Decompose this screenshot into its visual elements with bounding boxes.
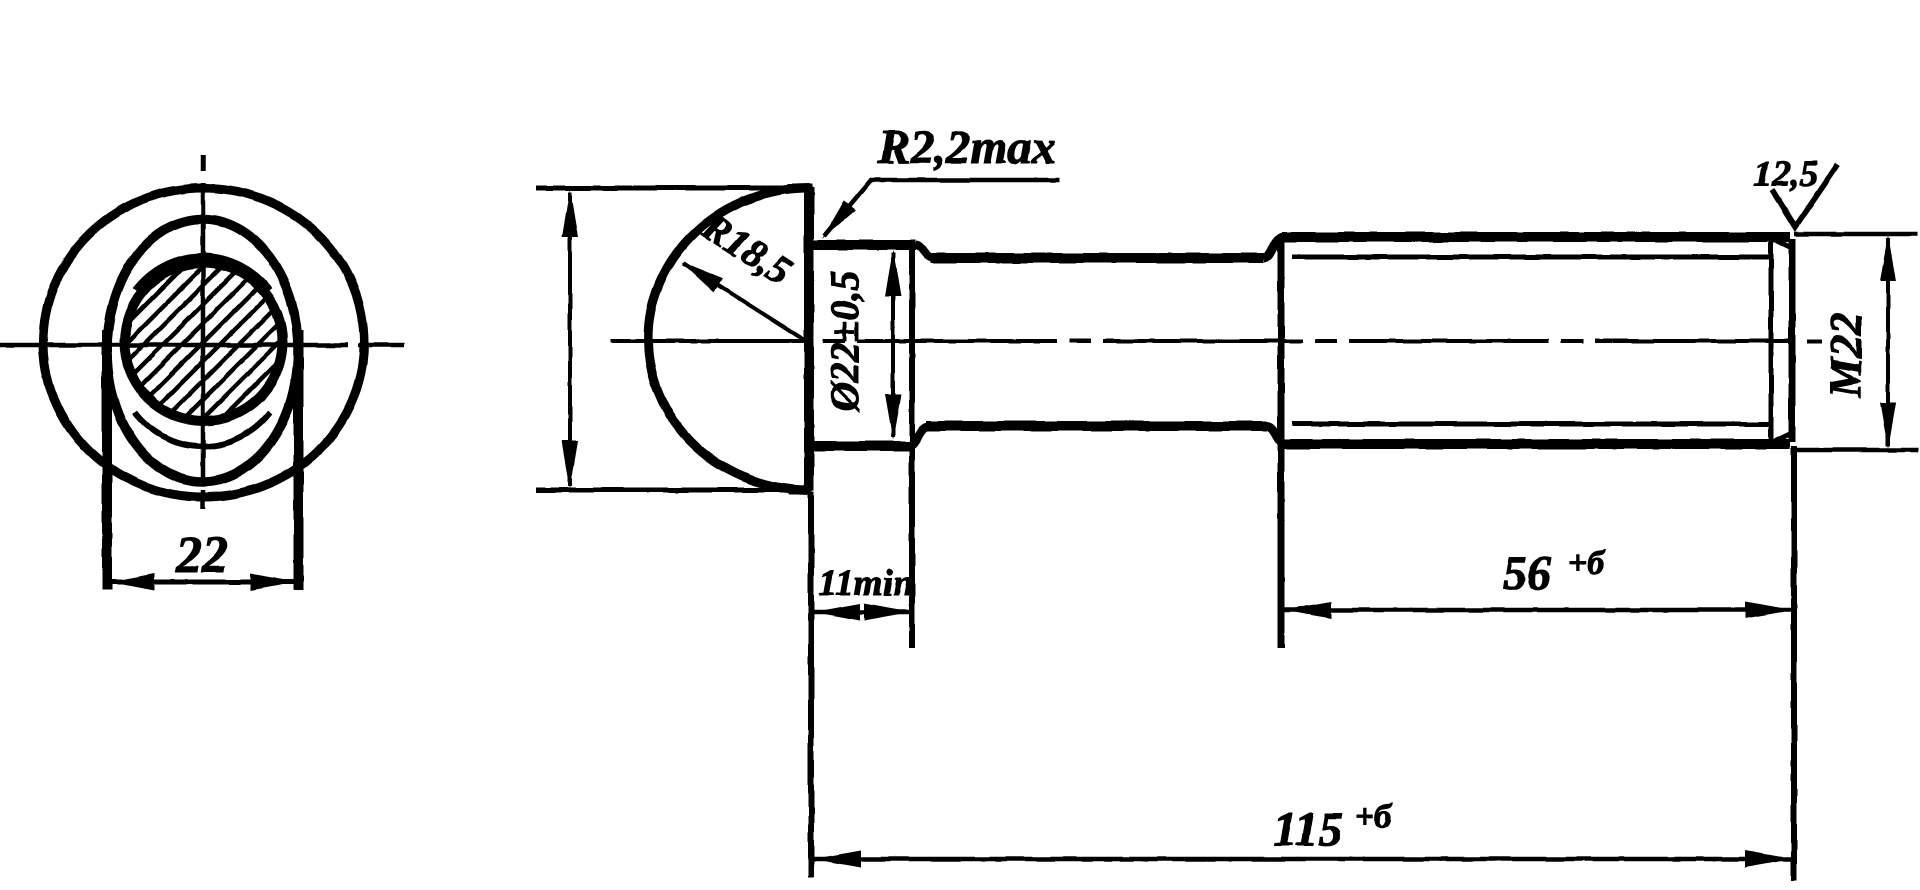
- svg-text:11min: 11min: [819, 563, 914, 604]
- svg-text:115: 115: [1273, 803, 1342, 856]
- svg-text:R2,2max: R2,2max: [877, 121, 1055, 174]
- svg-text:+б: +б: [1355, 799, 1393, 836]
- svg-text:12,5: 12,5: [1754, 154, 1819, 195]
- svg-text:56: 56: [1503, 547, 1551, 600]
- svg-text:Ø22±0,5: Ø22±0,5: [822, 271, 867, 413]
- svg-text:M22: M22: [1821, 312, 1871, 398]
- svg-text:22: 22: [175, 527, 228, 584]
- svg-text:+б: +б: [1568, 545, 1606, 582]
